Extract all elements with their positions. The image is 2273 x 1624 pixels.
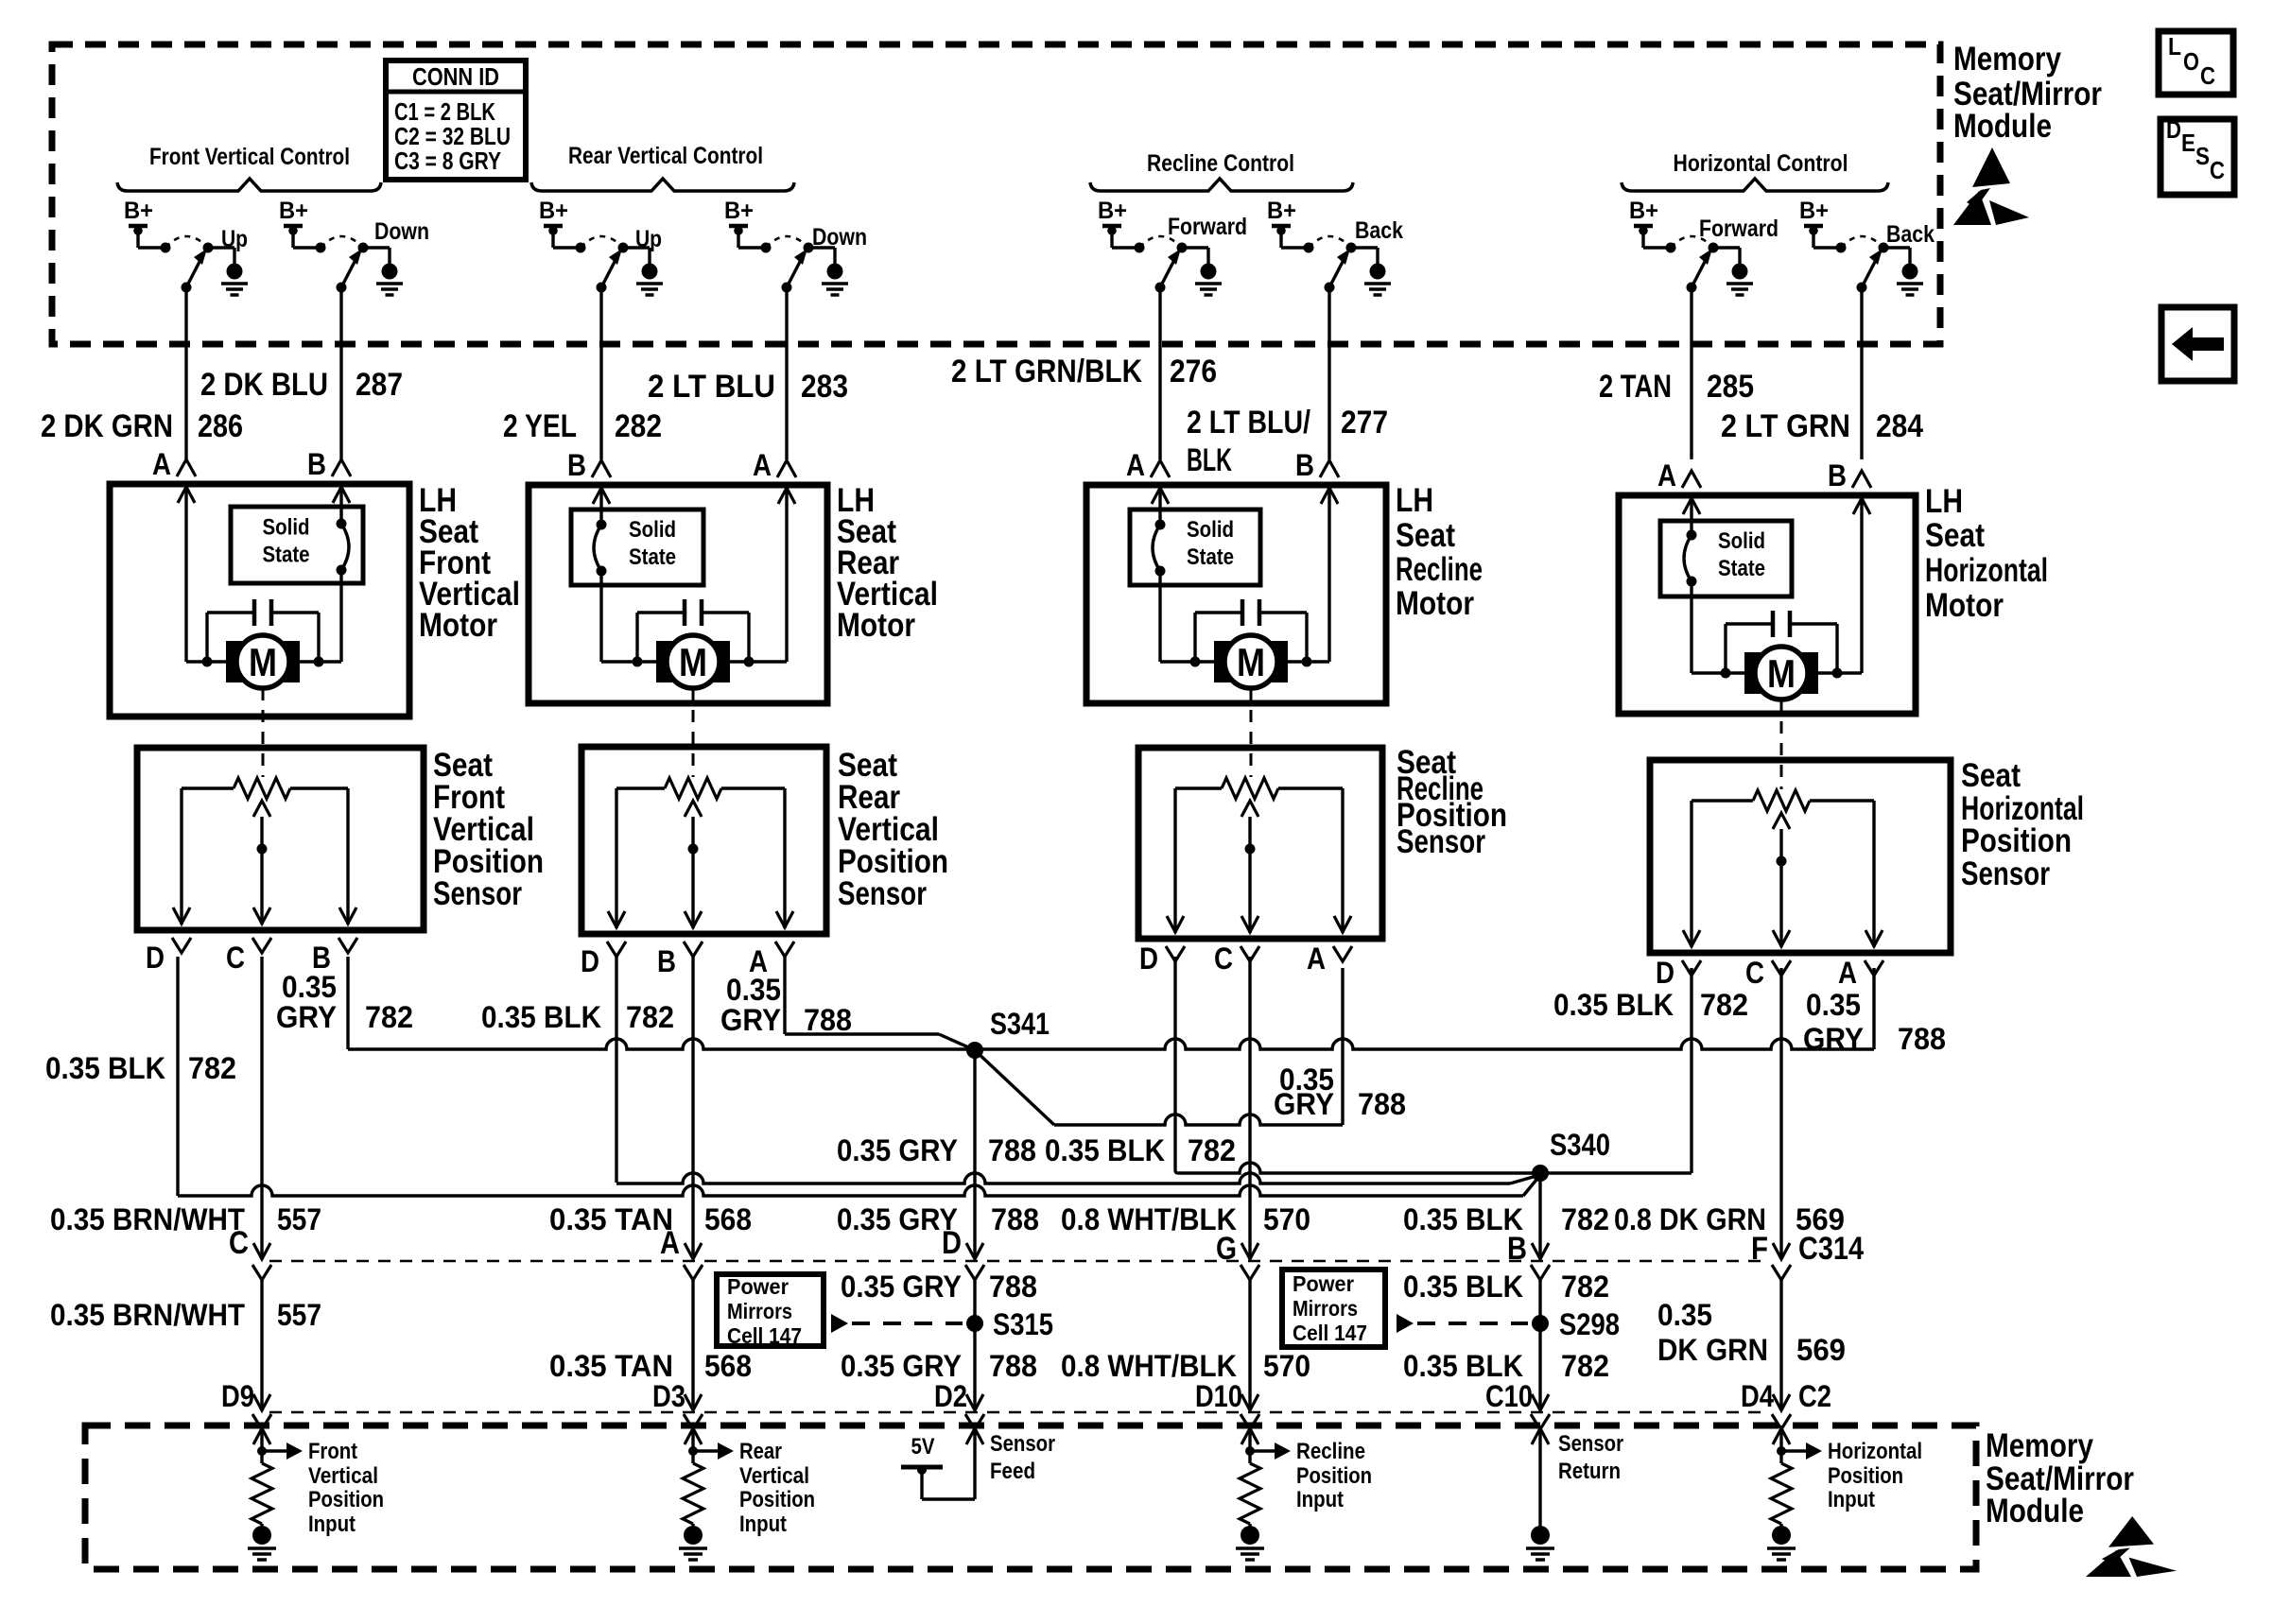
svg-text:D: D [2166, 115, 2181, 144]
wire segment between connectors (D-D2) [965, 1280, 984, 1429]
wire label: 0.8 WHT/BLK 570 (below C314) [1061, 1349, 1310, 1383]
svg-text:0.35 BRN/WHT: 0.35 BRN/WHT [50, 1202, 245, 1236]
pin C of Seat Front Vertical Position Sensor [226, 938, 271, 975]
svg-text:B+: B+ [1629, 198, 1658, 224]
svg-text:287: 287 [356, 367, 403, 403]
svg-text:Up: Up [221, 226, 248, 252]
connector C314 pin D [942, 1225, 984, 1280]
svg-text:Seat: Seat [1396, 517, 1455, 554]
5V sensor feed source [901, 1428, 983, 1499]
wire: sensor 2 pin B to C314 pin A (0.35 TAN 568) [685, 957, 702, 1259]
svg-text:Position: Position [1961, 822, 2072, 859]
svg-text:Front Vertical Control: Front Vertical Control [149, 144, 350, 170]
svg-text:277: 277 [1341, 405, 1388, 441]
svg-text:Back: Back [1355, 217, 1403, 244]
sensor return to ground inside module [1526, 1428, 1554, 1560]
module box: Memory Seat/Mirror Module (bottom) [85, 1425, 1976, 1569]
connector pin label D9 [221, 1379, 254, 1413]
svg-text:2 DK GRN: 2 DK GRN [41, 408, 173, 444]
suppression capacitor in LH Seat Rear Vertical Motor [637, 599, 749, 662]
connector C314 pin G [1216, 1231, 1259, 1280]
svg-text:Forward: Forward [1699, 216, 1778, 242]
connector pin label D2 [934, 1379, 967, 1413]
switch S7 (Horizontal Forward): label Forward [1699, 216, 1778, 242]
svg-text:788: 788 [989, 1270, 1037, 1304]
svg-text:C10: C10 [1485, 1379, 1533, 1413]
svg-text:Return: Return [1558, 1459, 1621, 1484]
svg-text:0.35 TAN: 0.35 TAN [549, 1349, 673, 1383]
label: Front Vertical Position Input [308, 1439, 384, 1537]
wire: sensor 3 pin C to C314 pin G (0.8 WHT/BLK 570) [1241, 957, 1258, 1259]
svg-text:Sensor: Sensor [433, 875, 522, 912]
svg-text:Mirrors: Mirrors [727, 1299, 792, 1323]
svg-text:0.35: 0.35 [282, 970, 337, 1004]
sensor element wires in Seat Front Vertical Position Sensor [173, 788, 356, 924]
svg-text:D: D [942, 1225, 962, 1261]
switch S2 (Front Vertical Down): blade arm [337, 249, 363, 293]
svg-text:C2: C2 [1798, 1379, 1831, 1413]
splice S341 [966, 1007, 1050, 1059]
svg-text:782: 782 [1561, 1270, 1609, 1304]
potentiometer wiper in Seat Front Vertical Position Sensor [253, 801, 270, 924]
svg-text:B+: B+ [539, 198, 568, 224]
group label: Front Vertical Control [117, 144, 381, 191]
switch S7 (Horizontal Forward): B+ terminal [1629, 198, 1658, 248]
switch S4 (Rear Vertical Down): blade arm [782, 249, 808, 293]
splice S340 [1532, 1128, 1610, 1182]
svg-text:557: 557 [277, 1298, 321, 1332]
wire label: 0.35 TAN 568 (below C314) [549, 1349, 752, 1383]
svg-text:E: E [2181, 129, 2195, 157]
svg-text:BLK: BLK [1187, 442, 1232, 478]
wire label: 0.35 BLK 782 (sensor 1 D) [45, 1051, 236, 1085]
LOC icon box [2159, 31, 2233, 95]
svg-text:A: A [1657, 458, 1676, 492]
solid state box in LH Seat Rear Vertical Motor [571, 510, 703, 585]
pin A of Seat Recline Position Sensor [1307, 942, 1352, 976]
svg-text:284: 284 [1876, 408, 1923, 444]
svg-text:D3: D3 [652, 1379, 685, 1413]
switch S1 (Front Vertical Up): label Up [221, 226, 248, 252]
svg-text:B+: B+ [1799, 198, 1829, 224]
svg-text:283: 283 [801, 369, 848, 405]
pin B of Seat Front Vertical Position Sensor [312, 938, 357, 975]
switch S4 (Rear Vertical Down): B+ terminal [724, 198, 754, 248]
svg-text:B+: B+ [1098, 198, 1127, 224]
wire label: 0.35 GRY 788 (above C314) [837, 1202, 1039, 1236]
wire label: 0.35 GRY 788 (sensor 2 A) [720, 973, 852, 1037]
group label: Horizontal Control [1622, 150, 1888, 191]
wire label: 0.35 GRY 788 (sensor 4 A) [1803, 988, 1946, 1056]
svg-text:570: 570 [1263, 1202, 1310, 1236]
svg-text:282: 282 [615, 408, 662, 444]
svg-text:Front: Front [308, 1439, 357, 1464]
switch S7 (Horizontal Forward): contacts and dashed throw [1643, 236, 1740, 264]
potentiometer in Seat Horizontal Position Sensor [1692, 790, 1874, 811]
svg-text:Memory: Memory [1953, 41, 2061, 78]
svg-text:C: C [2200, 61, 2215, 90]
wire from switch S5 (Recline Forward) to module edge [1158, 287, 1161, 459]
wire: sensor 4 pin C to C314 pin F (0.8 DK GRN 569) [1773, 968, 1790, 1259]
solid state switch contacts in LH Seat Recline Motor [1153, 520, 1166, 577]
wire from switch S3 (Rear Vertical Up) to module edge [599, 287, 602, 459]
svg-text:788: 788 [989, 1349, 1037, 1383]
svg-text:Sensor: Sensor [990, 1431, 1055, 1457]
wire label: 2 LT BLU 283 [648, 369, 848, 405]
wire label: 2 DK GRN 286 [41, 408, 243, 444]
svg-text:Cell 147: Cell 147 [727, 1323, 802, 1348]
svg-text:D: D [146, 941, 165, 975]
ground inside module (Rear Vertical Position Input) [679, 1524, 707, 1560]
svg-text:Feed: Feed [990, 1459, 1035, 1484]
label: Seat Rear Vertical Position Sensor [838, 747, 948, 912]
label: Rear Vertical Position Input [739, 1439, 815, 1537]
svg-text:Sensor: Sensor [838, 875, 927, 912]
connector C314 pin C [229, 1225, 271, 1280]
switch S5 (Recline Forward): contacts and dashed throw [1112, 236, 1208, 264]
input: Front Vertical Position Input (arrow, resistor) [252, 1428, 303, 1524]
svg-text:Input: Input [1296, 1487, 1344, 1512]
pin A of LH Seat Recline Motor [1126, 448, 1170, 482]
svg-text:M: M [1237, 640, 1265, 684]
svg-text:Position: Position [308, 1487, 384, 1512]
svg-text:C: C [1745, 956, 1764, 990]
svg-text:0.35: 0.35 [1657, 1298, 1712, 1332]
connector C314 pin A [660, 1225, 703, 1280]
pin D of Seat Horizontal Position Sensor [1656, 956, 1701, 990]
svg-text:Input: Input [308, 1512, 356, 1537]
switch S2 (Front Vertical Down): contacts and dashed throw [293, 236, 390, 264]
svg-text:0.35 GRY: 0.35 GRY [841, 1349, 962, 1383]
svg-text:0.35 BLK: 0.35 BLK [1045, 1133, 1165, 1167]
label: LH Seat Horizontal Motor [1925, 483, 2048, 624]
connector name C2 [1798, 1379, 1831, 1413]
svg-text:0.35 BLK: 0.35 BLK [1403, 1349, 1523, 1383]
svg-text:State: State [629, 544, 676, 570]
svg-text:Down: Down [812, 224, 867, 251]
label: Horizontal Position Input [1828, 1439, 1922, 1512]
pin C of Seat Horizontal Position Sensor [1745, 956, 1791, 990]
pin B of LH Seat Horizontal Motor [1828, 458, 1871, 492]
svg-text:M: M [1767, 651, 1796, 696]
svg-text:GRY: GRY [1274, 1087, 1334, 1121]
motor armature M in LH Seat Rear Vertical Motor [656, 635, 730, 688]
svg-text:568: 568 [704, 1202, 752, 1236]
switch S5 (Recline Forward): blade arm [1155, 249, 1182, 293]
wire from switch S1 (Front Vertical Up) to module edge [184, 287, 187, 459]
svg-text:Mirrors: Mirrors [1293, 1296, 1358, 1321]
svg-text:Sensor: Sensor [1397, 823, 1485, 860]
svg-text:C: C [2210, 156, 2225, 184]
sensor box: Seat Front Vertical Position Sensor [137, 748, 424, 930]
splice S315 [966, 1307, 1053, 1341]
switch S1 (Front Vertical Up): blade arm [182, 249, 208, 293]
svg-text:A: A [152, 447, 171, 481]
wire label: 0.35 TAN 568 (above C314) [549, 1202, 752, 1236]
svg-text:C: C [226, 941, 245, 975]
suppression capacitor in LH Seat Front Vertical Motor [207, 599, 319, 662]
wire label: 0.35 BLK 782 (below S298) [1403, 1349, 1609, 1383]
label: Memory Seat/Mirror Module (top right) [1953, 41, 2102, 145]
ground inside module (Horizontal Position Input) [1767, 1524, 1796, 1560]
wire segment between connectors (C-D9) [252, 1280, 271, 1429]
solid state switch contacts in LH Seat Front Vertical Motor [337, 519, 350, 576]
svg-text:Seat: Seat [1925, 517, 1985, 554]
wire label: 0.35 GRY 788 (below S315) [841, 1349, 1037, 1383]
switch S1 (Front Vertical Up): ground [221, 264, 248, 296]
svg-text:A: A [1307, 942, 1326, 976]
connector C314 pin B [1507, 1231, 1550, 1280]
svg-text:B: B [657, 944, 676, 978]
svg-text:Motor: Motor [419, 607, 497, 644]
svg-text:M: M [679, 640, 707, 684]
svg-text:Recline Control: Recline Control [1147, 150, 1294, 177]
svg-text:DK GRN: DK GRN [1657, 1333, 1768, 1367]
wire: sensor 2 pin A to S341 (0.35 GRY 788) [785, 957, 975, 1050]
wire: sensor 2 pin D to S340 (0.35 BLK 782) [616, 957, 1536, 1183]
pin B of LH Seat Rear Vertical Motor [567, 448, 611, 482]
svg-text:Sensor: Sensor [1558, 1431, 1623, 1457]
svg-text:0.35 TAN: 0.35 TAN [549, 1202, 673, 1236]
svg-text:0.35: 0.35 [726, 973, 781, 1007]
switch S2 (Front Vertical Down): ground [376, 264, 403, 296]
svg-text:Solid: Solid [629, 517, 676, 543]
input: Recline Position Input (arrow, resistor) [1240, 1428, 1291, 1524]
svg-text:A: A [753, 448, 772, 482]
dashed mechanical link: horizontal motor to sensor [1780, 700, 1783, 789]
wire label: 0.35 BLK 782 (sensor 3 D) [1045, 1133, 1236, 1167]
svg-text:Horizontal: Horizontal [1925, 552, 2048, 589]
svg-text:D2: D2 [934, 1379, 967, 1413]
wire segment between connectors (F-D4) [1772, 1280, 1791, 1429]
group label: Recline Control [1090, 150, 1353, 191]
ESD sensitivity symbol (top right) [1953, 147, 2029, 225]
svg-text:Down: Down [374, 218, 429, 245]
wire label: 2 DK BLU 287 [200, 367, 403, 403]
svg-text:782: 782 [1188, 1133, 1236, 1167]
pin A of LH Seat Front Vertical Motor [152, 447, 196, 481]
svg-text:Motor: Motor [1396, 585, 1474, 622]
pin D of Seat Recline Position Sensor [1139, 942, 1185, 976]
svg-text:Memory: Memory [1986, 1427, 2093, 1464]
svg-text:D10: D10 [1195, 1379, 1242, 1413]
splice S298 [1532, 1307, 1620, 1341]
svg-text:C: C [229, 1225, 249, 1261]
svg-text:B: B [1828, 458, 1847, 492]
svg-text:Recline: Recline [1396, 551, 1483, 588]
switch S6 (Recline Back): label Back [1355, 217, 1403, 244]
svg-text:Rear: Rear [739, 1439, 782, 1464]
svg-text:GRY: GRY [1803, 1022, 1864, 1056]
wire: sensor feed bus to S341 and on to sensor 4 pin A [348, 968, 1874, 1049]
wire: sensor 3 pin D to S340 (0.35 BLK 782) [1175, 957, 1540, 1173]
svg-text:Position: Position [739, 1487, 815, 1512]
svg-text:C314: C314 [1798, 1231, 1864, 1267]
wire from switch S6 (Recline Back) to module edge [1327, 287, 1330, 459]
svg-text:0.35 BLK: 0.35 BLK [481, 1000, 601, 1034]
svg-text:Position: Position [1828, 1463, 1903, 1489]
svg-text:L: L [2168, 32, 2181, 60]
svg-text:0.8 WHT/BLK: 0.8 WHT/BLK [1061, 1349, 1237, 1383]
wire label: 2 LT GRN 284 [1721, 408, 1923, 444]
group label: Rear Vertical Control [531, 143, 794, 191]
switch S2 (Front Vertical Down): label Down [374, 218, 429, 245]
label: Memory Seat/Mirror Module (bottom right) [1986, 1427, 2134, 1529]
svg-text:Module: Module [1953, 108, 2052, 145]
svg-text:568: 568 [704, 1349, 752, 1383]
wire label: 0.8 DK GRN 569 (above C314) [1614, 1202, 1845, 1236]
pin A of LH Seat Rear Vertical Motor [753, 448, 796, 482]
wire: sensor 1 pin B drop to feed bus (0.35 GRY 782) [346, 957, 349, 1049]
dashed mechanical link: front vertical motor to sensor [262, 688, 265, 777]
svg-text:C: C [1214, 942, 1233, 976]
svg-text:276: 276 [1170, 354, 1217, 389]
svg-text:S298: S298 [1559, 1307, 1620, 1341]
svg-text:Cell 147: Cell 147 [1293, 1321, 1367, 1345]
connector pin label D10 [1195, 1379, 1242, 1413]
svg-text:B+: B+ [279, 198, 308, 224]
svg-text:Sensor: Sensor [1961, 855, 2050, 892]
wire from switch S8 (Horizontal Back) to module edge [1860, 287, 1863, 459]
solid state switch contacts in LH Seat Rear Vertical Motor [594, 520, 607, 577]
motor armature M in LH Seat Recline Motor [1214, 635, 1288, 688]
dashed link to splice S315 [831, 1314, 963, 1333]
ground inside module (Recline Position Input) [1236, 1524, 1264, 1560]
svg-text:Seat: Seat [1961, 757, 2021, 794]
connector pin label D4 [1741, 1379, 1774, 1413]
pin C of Seat Recline Position Sensor [1214, 942, 1259, 976]
svg-text:Input: Input [739, 1512, 787, 1537]
switch S7 (Horizontal Forward): ground [1726, 264, 1753, 296]
svg-text:Motor: Motor [837, 607, 915, 644]
switch S3 (Rear Vertical Up): label Up [635, 226, 662, 252]
svg-text:Solid: Solid [1187, 517, 1234, 543]
pin B of LH Seat Recline Motor [1295, 448, 1339, 482]
connector C314 pin F [1751, 1231, 1791, 1280]
svg-text:788: 788 [988, 1133, 1036, 1167]
switch S5 (Recline Forward): B+ terminal [1098, 198, 1127, 248]
svg-text:0.35 GRY: 0.35 GRY [837, 1133, 958, 1167]
potentiometer in Seat Rear Vertical Position Sensor [616, 778, 785, 799]
svg-text:Module: Module [1986, 1493, 2084, 1529]
svg-text:A: A [1838, 956, 1857, 990]
wire: sensor 1 pin D to S340 (0.35 BLK 782) [178, 957, 1536, 1196]
switch S8 (Horizontal Back): contacts and dashed throw [1813, 236, 1910, 264]
sensor element wires in Seat Recline Position Sensor [1167, 788, 1351, 933]
svg-text:2 LT GRN/BLK: 2 LT GRN/BLK [951, 354, 1142, 389]
svg-text:0.35 BLK: 0.35 BLK [1553, 988, 1674, 1022]
wire segment between connectors (G-D10) [1241, 1280, 1259, 1429]
connector name C314 [1798, 1231, 1864, 1267]
svg-text:2 LT BLU/: 2 LT BLU/ [1187, 405, 1310, 441]
module box: Memory Seat/Mirror Module (top) [52, 44, 1940, 344]
solid state box in LH Seat Recline Motor [1130, 510, 1260, 585]
sensor box: Seat Recline Position Sensor [1138, 748, 1382, 939]
svg-text:B+: B+ [724, 198, 754, 224]
wire from switch S7 (Horizontal Forward) to module edge [1690, 287, 1692, 459]
svg-text:0.35 BLK: 0.35 BLK [1403, 1270, 1523, 1304]
svg-text:0.35 BLK: 0.35 BLK [1403, 1202, 1523, 1236]
svg-text:State: State [263, 543, 310, 568]
svg-text:State: State [1187, 544, 1234, 570]
wire: S340 to sensor 4 pin D [1540, 968, 1692, 1173]
svg-text:D: D [1656, 956, 1674, 990]
switch S4 (Rear Vertical Down): contacts and dashed throw [738, 236, 835, 264]
svg-text:S340: S340 [1550, 1128, 1610, 1162]
label: LH Seat Front Vertical Motor [419, 482, 520, 644]
wire: S341 drop to connector C314 pin D (0.35 GRY 788) [966, 1050, 983, 1259]
solid state box in LH Seat Front Vertical Motor [231, 507, 363, 583]
svg-text:A: A [1126, 448, 1145, 482]
label: Seat Front Vertical Position Sensor [433, 747, 544, 912]
pin B of LH Seat Front Vertical Motor [307, 447, 351, 481]
motor box: LH Seat Horizontal Motor [1619, 495, 1916, 714]
connector C314 boundary (dashed) [269, 1260, 1766, 1263]
svg-text:788: 788 [991, 1202, 1039, 1236]
motor box: LH Seat Front Vertical Motor [110, 484, 409, 717]
svg-text:0.35 GRY: 0.35 GRY [837, 1202, 958, 1236]
wire label: 0.35 BLK 782 (sensor 4 D) [1553, 988, 1748, 1022]
cell reference box: Power Mirrors Cell 147 (right) [1282, 1270, 1385, 1347]
svg-text:285: 285 [1707, 369, 1754, 405]
svg-text:Power: Power [1293, 1271, 1354, 1296]
dashed mechanical link: recline motor to sensor [1250, 688, 1253, 777]
internal wires of LH Seat Horizontal Motor [1683, 495, 1870, 679]
svg-text:GRY: GRY [276, 1000, 337, 1034]
internal wires of LH Seat Rear Vertical Motor [593, 485, 795, 667]
wire label: 2 LT GRN/BLK 276 [951, 354, 1217, 389]
svg-text:S315: S315 [993, 1307, 1053, 1341]
svg-text:0.8 WHT/BLK: 0.8 WHT/BLK [1061, 1202, 1237, 1236]
svg-text:D: D [1139, 942, 1158, 976]
pin D of Seat Front Vertical Position Sensor [146, 938, 191, 975]
pin B of Seat Rear Vertical Position Sensor [657, 942, 703, 978]
svg-text:F: F [1751, 1231, 1768, 1267]
wire label: 0.35 GRY 788 (upper, S315 row) [841, 1270, 1037, 1304]
svg-text:B: B [1507, 1231, 1527, 1267]
wire: S340 drop to connector C314 pin B (0.35 BLK 782) [1532, 1173, 1549, 1259]
switch S8 (Horizontal Back): blade arm [1857, 249, 1883, 293]
switch S6 (Recline Back): contacts and dashed throw [1281, 236, 1378, 264]
svg-text:Vertical: Vertical [308, 1463, 378, 1489]
suppression capacitor in LH Seat Horizontal Motor [1726, 611, 1837, 673]
solid state switch contacts in LH Seat Horizontal Motor [1684, 530, 1697, 587]
svg-text:2 DK BLU: 2 DK BLU [200, 367, 328, 403]
svg-text:S341: S341 [990, 1007, 1050, 1041]
svg-text:788: 788 [1358, 1087, 1406, 1121]
internal wires of LH Seat Front Vertical Motor [178, 484, 350, 667]
cell reference box: Power Mirrors Cell 147 (left) [717, 1274, 824, 1348]
svg-text:Power: Power [727, 1274, 789, 1299]
switch S3 (Rear Vertical Up): contacts and dashed throw [553, 236, 650, 264]
svg-text:Rear Vertical Control: Rear Vertical Control [568, 143, 763, 169]
svg-text:782: 782 [1700, 988, 1748, 1022]
svg-text:788: 788 [804, 1003, 852, 1037]
pin A of Seat Horizontal Position Sensor [1838, 956, 1883, 990]
internal wires of LH Seat Recline Motor [1152, 485, 1338, 667]
connector pin label C10 [1485, 1379, 1533, 1413]
sensor element wires in Seat Horizontal Position Sensor [1683, 801, 1883, 947]
svg-text:Recline: Recline [1296, 1439, 1365, 1464]
svg-text:Input: Input [1828, 1487, 1875, 1512]
DESC icon box [2160, 115, 2234, 195]
potentiometer wiper in Seat Recline Position Sensor [1241, 801, 1258, 933]
label: LH Seat Recline Motor [1396, 482, 1483, 622]
potentiometer wiper in Seat Horizontal Position Sensor [1773, 813, 1790, 947]
module boundary (thin dashed, bottom of connector band) [269, 1411, 1766, 1414]
svg-text:D9: D9 [221, 1379, 254, 1413]
switch S3 (Rear Vertical Up): blade arm [597, 249, 623, 293]
